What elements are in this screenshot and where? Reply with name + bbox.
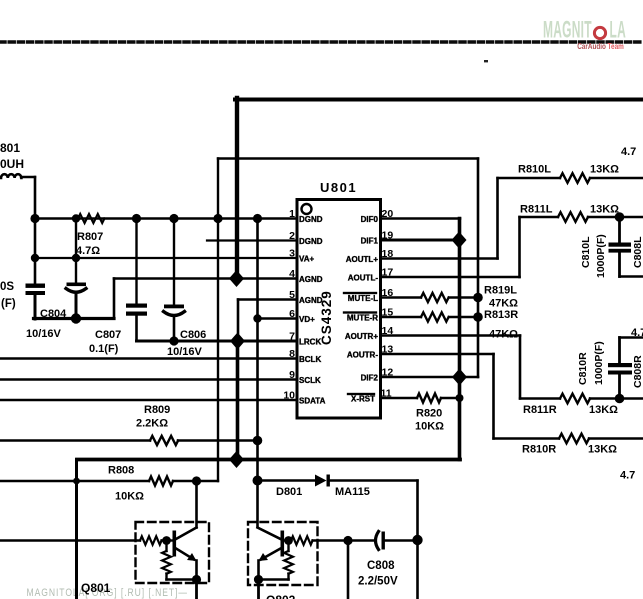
svg-text:13KΩ: 13KΩ — [589, 404, 618, 416]
svg-text:6: 6 — [289, 308, 295, 320]
svg-text:10KΩ: 10KΩ — [115, 491, 144, 503]
svg-text:DGND: DGND — [299, 215, 323, 224]
svg-text:0UH: 0UH — [0, 157, 24, 171]
wire: top supply line — [235, 98, 643, 102]
svg-text:R820: R820 — [416, 408, 442, 420]
wire: cap ground y=318.5 — [34, 317, 115, 320]
svg-text:AOUTL+: AOUTL+ — [346, 255, 379, 264]
diode D801 MA115 with net wire — [253, 476, 263, 486]
svg-text:801: 801 — [0, 141, 20, 155]
svg-text:4.7: 4.7 — [621, 146, 636, 158]
wire: vertical x=478 — [477, 159, 480, 378]
svg-text:R808: R808 — [108, 465, 134, 477]
wire: vertical x=114 — [113, 279, 116, 319]
wire: thick vertical bus x=237 upper — [235, 98, 239, 279]
wire: vertical x=76.5 down-left — [75, 460, 78, 599]
wire: pin19 DIF1 row — [381, 239, 460, 242]
svg-text:7: 7 — [289, 331, 295, 343]
wire: thick vertical bus x=237 lower — [236, 341, 240, 460]
svg-text:3: 3 — [289, 248, 295, 260]
svg-text:4.7Ω: 4.7Ω — [76, 245, 100, 257]
svg-text:1000P(F): 1000P(F) — [595, 234, 607, 278]
resistor R809 2.2K with row wire — [0, 439, 150, 442]
svg-text:LA: LA — [610, 17, 626, 44]
logo MAGNITOLA CarAudio Team — [543, 17, 626, 51]
svg-text:13KΩ: 13KΩ — [590, 164, 619, 176]
wire: pin6 row y=318.5 — [258, 317, 298, 319]
svg-text:0S: 0S — [0, 281, 14, 293]
node: diamond junction DIF1 — [452, 232, 467, 249]
resistor R813R 47K on pin15 row — [381, 309, 519, 341]
svg-text:MAGNIT: MAGNIT — [543, 17, 592, 44]
svg-text:MA115: MA115 — [335, 486, 370, 498]
wire: vertical x=459.5 — [458, 219, 462, 460]
svg-text:C808: C808 — [367, 560, 395, 572]
svg-text:R811L: R811L — [520, 204, 553, 216]
svg-text:(F): (F) — [1, 298, 16, 310]
svg-text:4.7: 4.7 — [631, 327, 643, 339]
resistor R811R 13K — [520, 394, 643, 416]
capacitor C805 (left edge labels) — [0, 281, 86, 319]
svg-text:Team: Team — [608, 41, 625, 51]
node: diamond junction DIF2 — [452, 369, 467, 386]
wire: vertical x=238 pin5 to gnd row — [237, 300, 240, 342]
wire: pin14 AOUTR+ row — [381, 334, 521, 337]
svg-text:AGND: AGND — [299, 275, 323, 284]
svg-text:SCLK: SCLK — [299, 376, 321, 385]
inductor L801 — [0, 141, 35, 178]
svg-text:Q802: Q802 — [266, 593, 296, 599]
resistor R819L 47K on pin16 row — [381, 285, 519, 310]
svg-text:DIF2: DIF2 — [361, 374, 379, 383]
svg-text:10: 10 — [283, 390, 295, 402]
wire: pin17 AOUTL- row — [381, 276, 520, 279]
svg-text:9: 9 — [289, 369, 295, 381]
capacitor C806 — [164, 219, 207, 359]
svg-text:1000P(F): 1000P(F) — [593, 341, 605, 385]
capacitor C810R 1000P(F) — [577, 338, 643, 404]
svg-text:2.2KΩ: 2.2KΩ — [136, 418, 168, 430]
wire: pin12 DIF2 row — [381, 376, 479, 379]
wire: vertical x=76 R807 to C805 — [75, 219, 77, 285]
node: diamond junction bus/net459 — [229, 451, 244, 468]
svg-text:CarAudio: CarAudio — [577, 41, 606, 51]
svg-text:C806: C806 — [180, 329, 206, 341]
svg-text:R819L: R819L — [484, 285, 517, 297]
capacitor C810L 1000P(F) — [580, 212, 643, 278]
svg-text:U801: U801 — [320, 180, 357, 195]
resistor R811L 13K — [520, 204, 643, 222]
IC pin names left column — [299, 215, 326, 406]
wire: vertical x=35 from L801 to C804 — [34, 177, 37, 285]
svg-text:10/16V: 10/16V — [167, 346, 203, 358]
svg-text:MUTE-R: MUTE-R — [347, 314, 378, 323]
resistor R810R 13K — [494, 434, 643, 456]
node dots pin1 row — [30, 214, 39, 223]
wire: pin8 row y=358.5 — [0, 357, 297, 360]
capacitor C804 — [26, 284, 68, 341]
svg-text:C808L: C808L — [632, 236, 643, 268]
svg-text:AOUTR+: AOUTR+ — [345, 332, 378, 341]
transistor Q801 (left half, dashed outline) — [0, 481, 209, 599]
node: diamond junction pin4/bus — [229, 270, 244, 287]
capacitor C808 2.2/50V — [343, 532, 422, 599]
capacitor C807 — [89, 219, 147, 356]
wire: thick net y=459.5 — [77, 458, 460, 462]
svg-text:0.1(F): 0.1(F) — [89, 343, 119, 355]
svg-text:5: 5 — [289, 289, 295, 301]
svg-text:AOUTL-: AOUTL- — [348, 274, 379, 283]
svg-text:BCLK: BCLK — [299, 355, 321, 364]
svg-text:2: 2 — [289, 230, 295, 242]
node: diamond junction bus/gnd row — [230, 333, 245, 350]
IC pin names right column — [343, 215, 379, 404]
wire: vertical x=417.5 — [416, 481, 419, 599]
svg-text:VA+: VA+ — [299, 255, 315, 264]
svg-text:C810R: C810R — [577, 352, 589, 385]
svg-text:MUTE-L: MUTE-L — [348, 294, 378, 303]
svg-text:13KΩ: 13KΩ — [588, 444, 617, 456]
svg-text:D801: D801 — [276, 486, 302, 498]
wire: horizontal net y=158 — [218, 157, 478, 159]
svg-text:Q801: Q801 — [81, 581, 111, 595]
svg-text:R813R: R813R — [484, 309, 518, 321]
svg-text:R810L: R810L — [518, 164, 551, 176]
wire: vertical x=218 — [217, 159, 219, 482]
svg-text:X-RST: X-RST — [351, 395, 375, 404]
svg-text:R811R: R811R — [523, 404, 557, 416]
svg-text:4.7: 4.7 — [620, 470, 635, 482]
svg-text:1: 1 — [289, 208, 295, 220]
svg-text:10KΩ: 10KΩ — [415, 421, 444, 433]
scan speck — [484, 60, 488, 62]
svg-text:DIF1: DIF1 — [361, 237, 379, 246]
svg-text:DGND: DGND — [299, 237, 323, 246]
op-amp/IC U801 CS4329 — [297, 180, 381, 418]
IC pin numbers right — [381, 208, 394, 400]
wire: pin18 AOUTL+ row — [381, 257, 498, 260]
wire: pin3 row y=258 — [35, 257, 297, 259]
svg-text:AGND: AGND — [299, 296, 323, 305]
wire: pin13 AOUTR- row — [381, 353, 494, 356]
resistor R807 4.7ohm — [76, 214, 104, 257]
svg-text:2.2/50V: 2.2/50V — [358, 576, 398, 588]
resistor R820 10K on pin11 row — [381, 394, 464, 433]
wire: vertical x=257.5 long — [256, 219, 259, 528]
svg-text:DIF0: DIF0 — [361, 215, 379, 224]
svg-text:C807: C807 — [95, 329, 121, 341]
svg-text:8: 8 — [289, 348, 295, 360]
svg-text:13KΩ: 13KΩ — [590, 204, 619, 216]
resistor R808 10K with row wire — [0, 480, 149, 482]
svg-text:R809: R809 — [144, 404, 170, 416]
wire: pin4 row y=278.5 — [114, 277, 297, 280]
wire: ground/pin7 row y=341 — [137, 340, 298, 343]
wire: pin5 row y=299.5 — [238, 298, 297, 300]
wire: pin2 row y=240.5 — [207, 239, 297, 241]
wire: pin10 row y=400 — [0, 399, 297, 402]
transistor Q801 (right half, dashed outline) — [248, 522, 348, 599]
svg-text:47KΩ: 47KΩ — [489, 298, 518, 310]
svg-text:C810L: C810L — [580, 236, 592, 268]
IC pin numbers left — [283, 208, 295, 402]
wire: pin20 DIF0 to vertical — [381, 217, 461, 220]
svg-text:SDATA: SDATA — [299, 397, 326, 406]
svg-text:C808R: C808R — [632, 355, 643, 388]
resistor R810L 13K — [498, 164, 643, 183]
svg-text:10/16V: 10/16V — [26, 328, 62, 340]
svg-text:AOUTR-: AOUTR- — [347, 351, 378, 360]
svg-text:VD+: VD+ — [299, 315, 315, 324]
wire: pin9 row y=379.5 — [0, 378, 297, 381]
svg-text:LRCK: LRCK — [299, 338, 321, 347]
svg-text:R807: R807 — [77, 231, 103, 243]
svg-text:4: 4 — [289, 268, 295, 280]
svg-text:R810R: R810R — [522, 444, 556, 456]
dotted page separator line — [0, 40, 643, 44]
wire: pin1 row y=218.5 — [35, 217, 297, 220]
